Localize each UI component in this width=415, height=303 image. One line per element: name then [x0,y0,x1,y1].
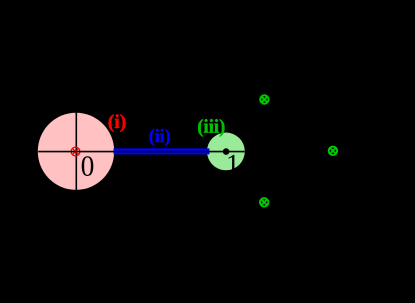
disk around 1 (green) [207,133,245,171]
horizontal real axis line [38,151,244,153]
label 1 [228,155,238,174]
point at 1: black dot [223,148,230,155]
point at 0: red circled-times [71,147,80,156]
vertical axis line through 0 [75,113,77,191]
label (iii) green [198,119,224,137]
segment (ii) from 0 to 1 (blue) [114,148,210,154]
label 0 [82,156,94,176]
label (i) red [109,114,126,132]
label (ii) blue [150,129,170,146]
green circled-times point C [260,198,268,206]
green circled-times point A [260,95,268,103]
disk around 0 (pink) [38,113,114,190]
green circled-times point B [329,147,337,155]
